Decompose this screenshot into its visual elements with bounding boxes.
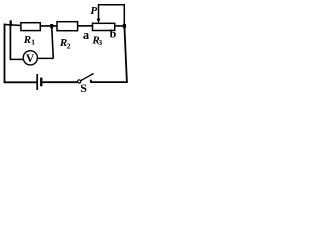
voltmeter V circle bbox=[23, 51, 37, 65]
wire voltmeter branch up to junction bbox=[52, 26, 54, 58]
battery short thick plate bbox=[40, 78, 42, 87]
switch lever bbox=[81, 74, 94, 81]
wire left border bbox=[4, 24, 6, 83]
svg-text:1: 1 bbox=[31, 38, 35, 47]
resistor R1 box bbox=[21, 23, 40, 31]
node junction of voltmeter branch on top wire bbox=[10, 20, 12, 26]
wire R1 to R2 bbox=[40, 25, 57, 27]
svg-text:R: R bbox=[23, 34, 31, 46]
wire right border bbox=[124, 26, 127, 82]
svg-text:b: b bbox=[110, 26, 117, 40]
node junction of voltmeter right branch bbox=[50, 24, 53, 28]
battery long plate bbox=[36, 74, 38, 90]
wire bottom left bbox=[4, 81, 37, 83]
switch S pivot circle bbox=[78, 80, 81, 83]
switch right contact bbox=[90, 80, 92, 83]
node junction top right bbox=[123, 24, 126, 28]
wire battery to switch bbox=[42, 81, 77, 83]
svg-text:S: S bbox=[80, 81, 87, 95]
wire switch to right corner bbox=[90, 81, 128, 83]
wire top left segment bbox=[4, 24, 22, 25]
svg-text:3: 3 bbox=[98, 38, 102, 47]
voltmeter branch: vertical from top wire down bbox=[9, 20, 11, 59]
svg-text:a: a bbox=[83, 28, 90, 42]
wire R2 to R3 bbox=[78, 25, 93, 27]
svg-text:2: 2 bbox=[67, 41, 71, 50]
wiper arrowhead P bbox=[97, 19, 101, 24]
wire to voltmeter left bbox=[10, 58, 24, 60]
svg-text:P: P bbox=[90, 5, 97, 17]
resistor R3 box (rheostat) bbox=[93, 23, 115, 30]
wire voltmeter right bbox=[37, 57, 53, 59]
wire rheostat wiper loop: up, across, down bbox=[99, 5, 125, 26]
svg-text:V: V bbox=[26, 53, 35, 65]
resistor R2 box bbox=[57, 22, 78, 31]
wire R3 to right border bbox=[115, 25, 126, 27]
